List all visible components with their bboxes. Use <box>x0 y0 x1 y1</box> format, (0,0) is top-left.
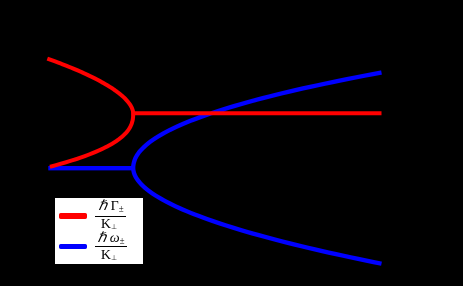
red Gamma curve: flat degenerate segment <box>131 111 381 115</box>
label 2 numerator: hbar omega pm <box>93 232 129 248</box>
red Gamma curve: split branches before exceptional point <box>47 59 133 167</box>
blue omega curve: flat degenerate segment <box>48 166 133 170</box>
label 1 fraction bar <box>95 216 127 217</box>
label 1 denominator: K perp <box>91 219 127 233</box>
legend red line sample <box>59 213 86 218</box>
blue omega curve: split branches after exceptional point <box>133 73 381 264</box>
legend box <box>55 198 143 265</box>
label 1 numerator: hbar Gamma pm <box>93 200 129 216</box>
label 2 denominator: K perp <box>91 250 127 264</box>
label 2 fraction bar <box>95 246 127 247</box>
legend blue line sample <box>59 244 86 249</box>
